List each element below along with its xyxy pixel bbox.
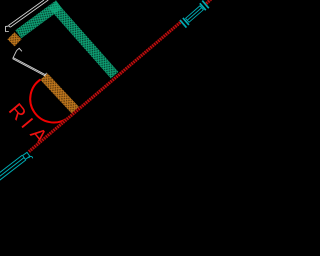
- wall end cap: [9, 25, 11, 27]
- supply pipe (cyan triple line): [0, 155, 26, 180]
- sill double line: [13, 58, 47, 77]
- door leaf (orange hatch): [40, 73, 80, 114]
- valve hook: [29, 156, 33, 158]
- masonry block (orange diamond): [7, 32, 21, 46]
- pipe fitting (flanged spool): [179, 0, 209, 28]
- jamb chevron below block: [17, 48, 22, 51]
- door swing arc: [30, 80, 67, 123]
- wall edge double line: [9, 0, 49, 27]
- wall hatch band right: [53, 5, 115, 75]
- jamb step at leaf: [44, 73, 46, 76]
- pipe flange / valve box lower left: [23, 152, 30, 159]
- pipe run (red hatched line) base: [29, 21, 182, 152]
- pipe run dashes: [29, 21, 182, 152]
- jamb line to sill: [13, 51, 17, 59]
- jamb notch upper: [6, 26, 9, 32]
- wall hatch band left: [18, 4, 59, 34]
- pipe run stub above fitting: [206, 0, 210, 3]
